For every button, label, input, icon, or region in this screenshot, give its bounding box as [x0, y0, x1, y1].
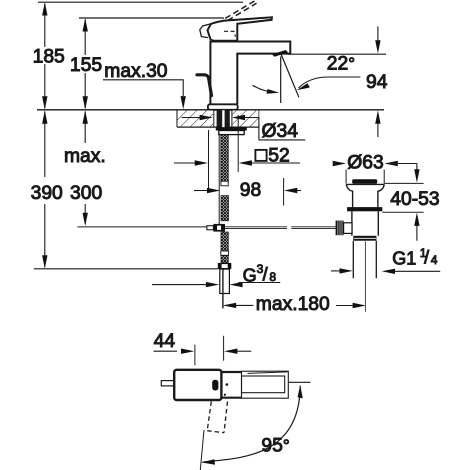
spout outlet (aerator) [272, 50, 288, 57]
svg-text:94: 94 [366, 72, 388, 93]
handle stop line (right) [288, 381, 310, 383]
flexible supply hose (braided) [221, 135, 229, 263]
rotated lever (dashed) [207, 402, 227, 433]
svg-text:/: / [424, 248, 429, 268]
handle left jag highlight [200, 24, 211, 38]
svg-text:390: 390 [31, 183, 63, 204]
knob plunger [344, 223, 352, 234]
drain tailpipe [353, 241, 376, 279]
pop-up lift rod knob [197, 75, 212, 96]
grip diagonal detail [248, 372, 288, 374]
swing arrow left [253, 85, 276, 92]
svg-text:max.180: max.180 [256, 294, 330, 315]
lever axis line [200, 430, 204, 470]
svg-text:max.30: max.30 [104, 61, 167, 82]
mounting nut [219, 131, 244, 135]
svg-text:Ø34: Ø34 [262, 121, 299, 142]
svg-text:4: 4 [431, 253, 438, 267]
svg-text:/: / [263, 265, 268, 285]
spout height ref line [289, 53, 387, 55]
22 degree stream: tilted line [281, 55, 299, 98]
pop-up rod (vertical) [218, 135, 220, 224]
hose fittings (white bands) [221, 181, 228, 186]
mounting washer [216, 127, 247, 130]
svg-text:44: 44 [154, 331, 176, 352]
dimension square52 [174, 115, 300, 188]
dimension 98 [194, 178, 301, 206]
dimension max.180 [223, 303, 366, 309]
svg-text:max.: max. [64, 146, 106, 167]
pop-up rod end (left protrusion) [161, 381, 174, 386]
faucet base plate [208, 104, 238, 110]
svg-text:52: 52 [268, 145, 289, 166]
svg-text:G: G [243, 266, 257, 286]
label G1 1/4 with dimension arrows [331, 268, 440, 274]
top view lever grip outer [242, 371, 289, 398]
drain body [352, 211, 378, 235]
top view body (square) [174, 370, 221, 400]
svg-text:40-53: 40-53 [390, 189, 439, 210]
drain collar nut [353, 236, 376, 241]
dimension 44 [154, 336, 252, 366]
drain plug cap [352, 179, 377, 184]
counter top surface line [37, 109, 384, 111]
svg-text:G1: G1 [392, 249, 416, 269]
top view lever base [221, 371, 241, 373]
dimension 40-53 [382, 164, 423, 241]
dimension 185 [42, 2, 47, 109]
ref line max.300 bottom [78, 226, 208, 228]
handle hidden edge (dashed) [224, 31, 236, 36]
pop-up horizontal rod to drain [225, 227, 336, 229]
rubber washer [347, 207, 382, 211]
svg-text:300: 300 [70, 183, 102, 204]
faucet body outline [210, 42, 290, 105]
raised lever (dashed) [225, 1, 256, 21]
ref line top (handle raised height) [38, 1, 243, 3]
top view lever grip inner [242, 376, 285, 393]
drain centerline [364, 242, 366, 312]
ref line lever top (155) [79, 17, 224, 19]
22 degree stream: vertical reference [280, 57, 282, 104]
95 degree arc [203, 386, 301, 463]
label G3/8 with dimension arrows [152, 282, 280, 287]
dimension 390 [42, 110, 47, 268]
threaded shank in counter hole [214, 110, 232, 127]
counter cross-section block [177, 110, 259, 127]
dimension 155 [83, 18, 88, 109]
svg-text:Ø63: Ø63 [347, 153, 383, 174]
svg-text:95°: 95° [261, 436, 289, 457]
drain flange [346, 184, 384, 207]
dimension O63 [333, 161, 417, 184]
svg-text:8: 8 [269, 270, 276, 284]
supply pipe below nut [220, 269, 230, 293]
G3/8 nut [218, 263, 232, 269]
small screw dots [226, 383, 229, 386]
knurled knob [336, 221, 344, 236]
svg-text:155: 155 [70, 55, 102, 76]
faucet centerline below [222, 269, 224, 308]
ref line 390 bottom (hose end) [34, 268, 218, 270]
cartridge slot [212, 380, 218, 391]
dimension O34 (hole) [182, 115, 306, 140]
svg-text:185: 185 [33, 47, 65, 68]
dimension max.300 [83, 110, 88, 226]
pop-up rod T-fitting [207, 226, 214, 230]
lever handle [208, 17, 272, 41]
svg-text:22°: 22° [327, 53, 355, 74]
svg-text:98: 98 [240, 180, 261, 201]
dimension 94 [375, 26, 380, 137]
